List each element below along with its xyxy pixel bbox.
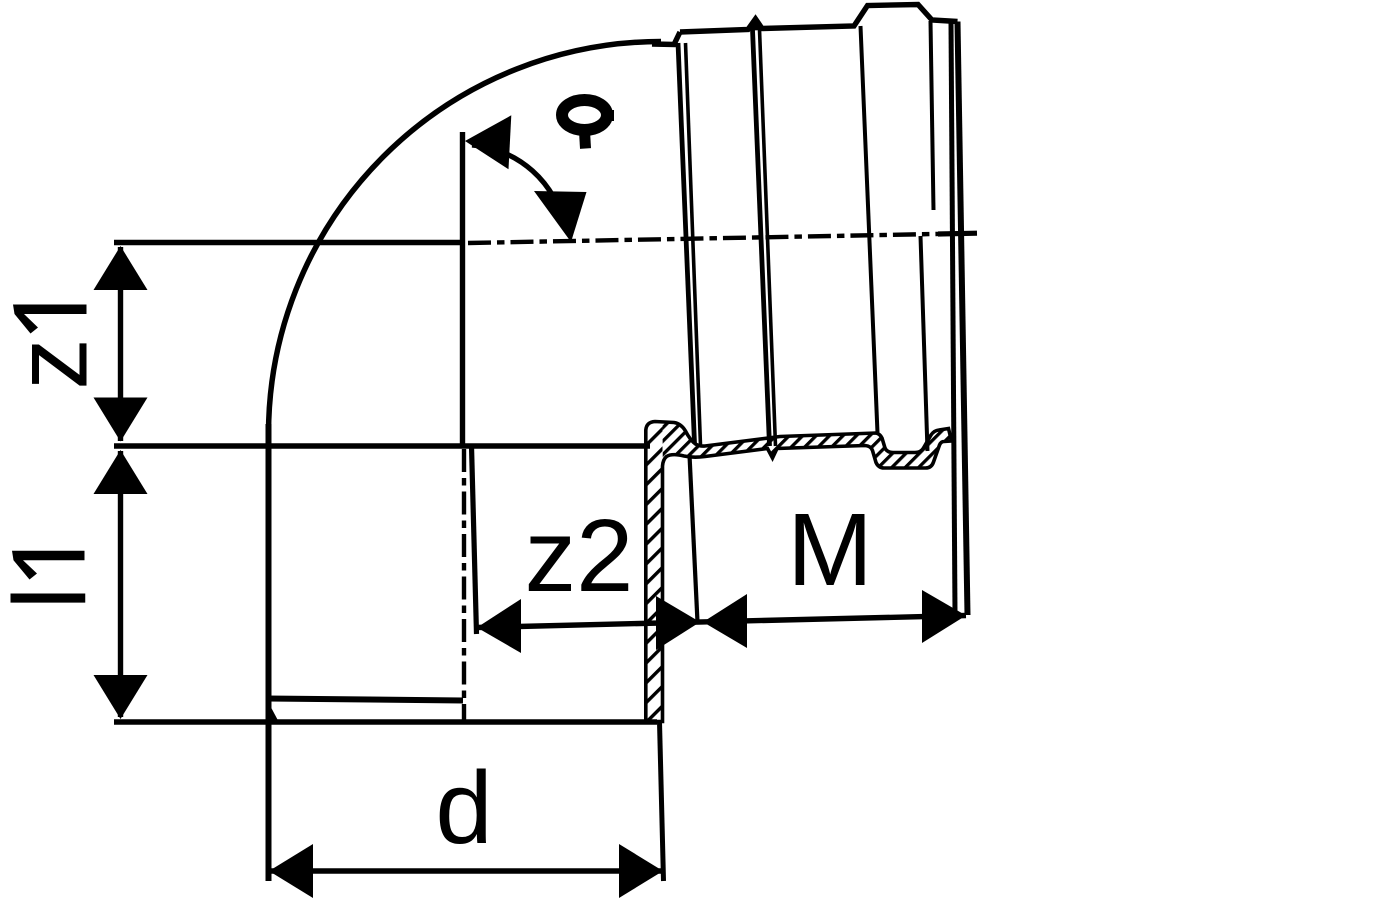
svg-text:z: z — [0, 338, 109, 390]
svg-text:z2: z2 — [525, 498, 634, 613]
svg-text:M: M — [787, 492, 873, 607]
svg-text:d: d — [435, 750, 492, 865]
svg-text:l: l — [0, 587, 107, 610]
